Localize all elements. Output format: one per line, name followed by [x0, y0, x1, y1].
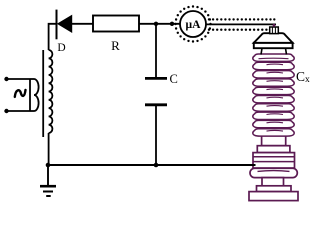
node junction capacitor bottom	[154, 163, 159, 168]
diode D triangle	[58, 16, 72, 33]
bushing Cx shed 7	[253, 104, 294, 111]
capacitor C bottom plate	[145, 103, 167, 106]
capacitor C top wire	[155, 24, 157, 77]
svg-text:C: C	[170, 72, 178, 86]
node junction before meter	[170, 22, 174, 26]
node AC terminal bottom	[4, 109, 8, 113]
bushing Cx shed 4	[253, 79, 294, 86]
wire	[7, 78, 31, 80]
bottom wire ground bus	[48, 164, 256, 166]
microammeter U1 dotted shield ring	[174, 5, 211, 42]
wire secondary bottom to ground node	[48, 133, 50, 165]
shield dotted row lower	[208, 29, 271, 31]
transformer T1 primary winding	[30, 79, 39, 111]
node junction capacitor branch	[154, 22, 158, 26]
wire diode to resistor	[72, 23, 93, 25]
ground stub	[47, 165, 49, 186]
microammeter U1 body	[180, 11, 206, 37]
bushing Cx flange plates	[253, 153, 295, 168]
bushing Cx shed 8	[253, 112, 294, 119]
bushing Cx shed 5	[253, 87, 294, 94]
bushing Cx shed 3	[253, 71, 294, 78]
bushing Cx cap rect	[254, 43, 293, 48]
svg-text:μA: μA	[186, 18, 202, 31]
transformer T1 secondary winding	[49, 50, 53, 133]
bushing Cx shed 1	[253, 54, 294, 61]
node junction ground left	[46, 163, 51, 168]
svg-text:R: R	[111, 38, 120, 53]
bushing Cx column under sheds	[262, 135, 286, 146]
wire resistor to meter	[139, 23, 180, 25]
AC source symbol ~	[15, 90, 26, 97]
transformer T1 core	[42, 50, 44, 137]
node AC terminal top	[4, 77, 8, 81]
bushing Cx shed 10	[253, 129, 294, 136]
capacitor C top plate	[145, 77, 167, 80]
bushing Cx shed 9	[253, 120, 294, 127]
resistor R	[93, 16, 139, 32]
capacitor C bottom wire	[155, 106, 157, 165]
bushing Cx neck under cap	[261, 48, 287, 54]
bushing Cx shed 6	[253, 96, 294, 103]
bushing Cx shed 2	[253, 62, 294, 69]
svg-text:D: D	[57, 42, 65, 54]
bushing Cx step	[257, 146, 290, 153]
wire secondary top to diode	[49, 24, 56, 50]
shield dotted row upper	[208, 18, 276, 20]
bushing Cx lower column	[262, 178, 284, 186]
bushing Cx terminal knob	[270, 24, 279, 34]
bushing Cx base	[249, 192, 298, 201]
diode D cathode bar	[56, 10, 58, 40]
wire	[7, 110, 31, 112]
bushing Cx cushion	[250, 168, 297, 177]
ground symbol	[40, 186, 56, 196]
bushing Cx dome	[254, 33, 293, 43]
wire meter to bushing terminal	[206, 23, 276, 25]
bushing Cx lower plate	[257, 186, 292, 192]
